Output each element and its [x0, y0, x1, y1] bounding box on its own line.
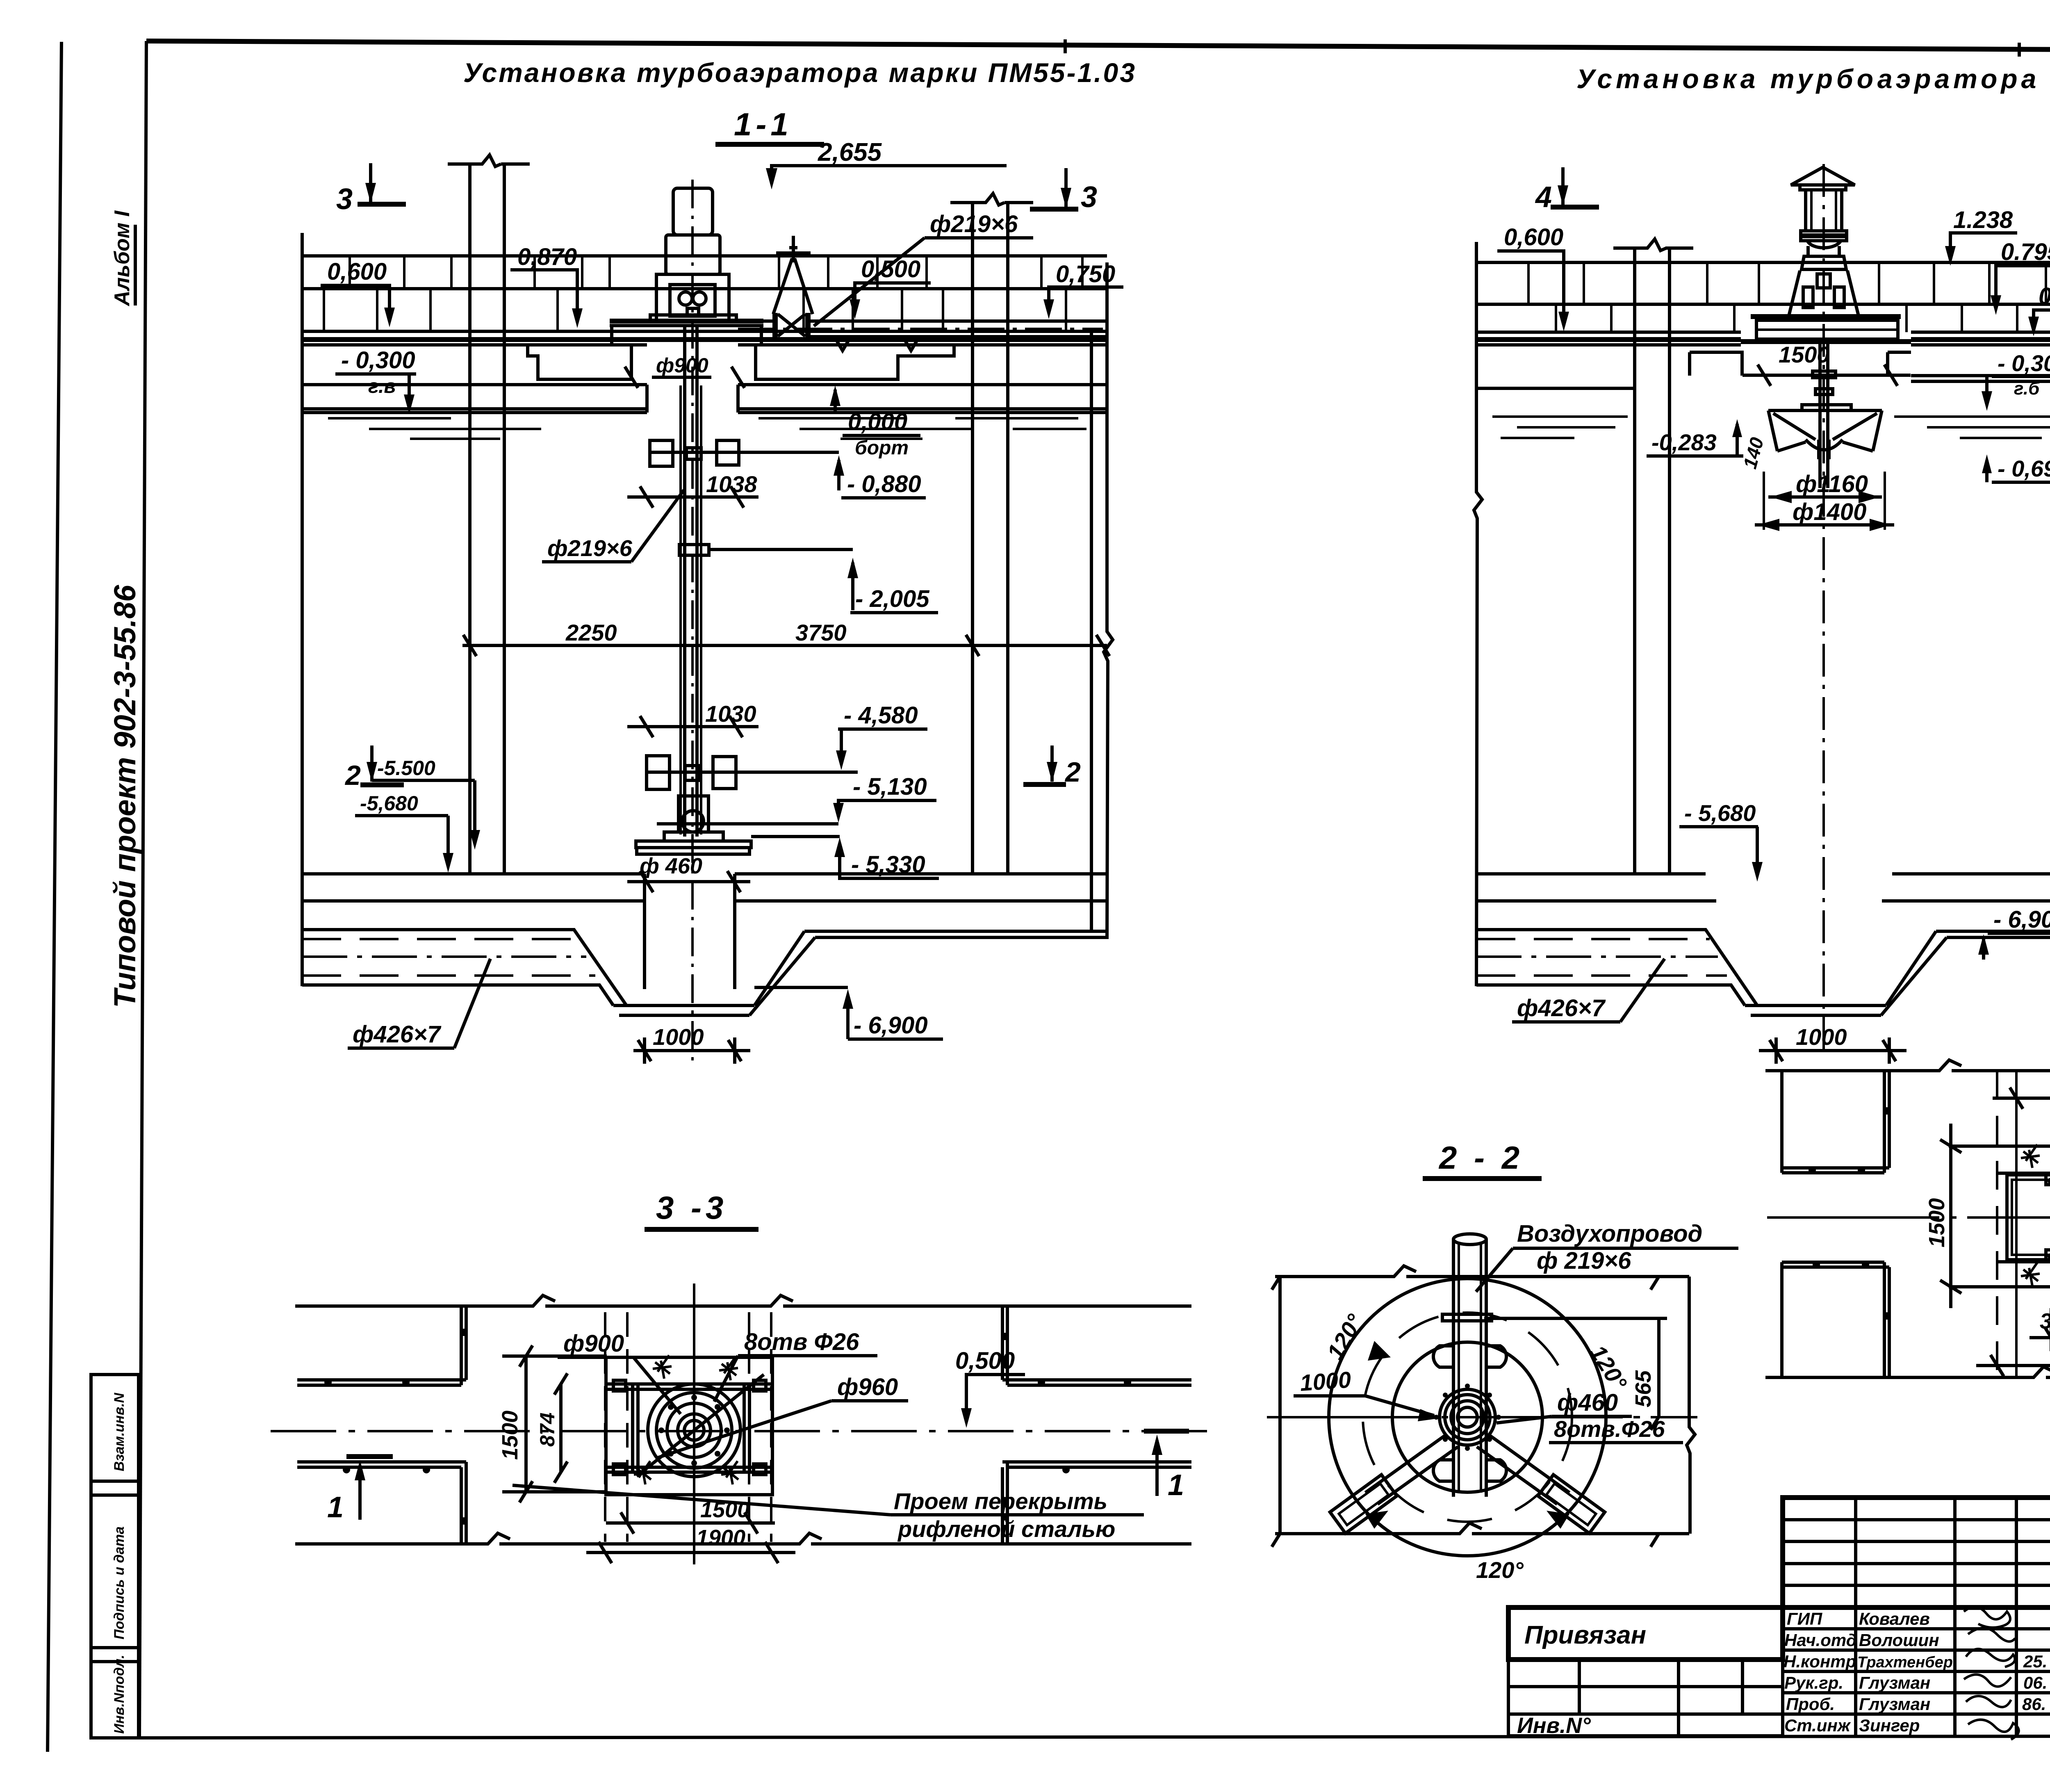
- motor body: [656, 274, 729, 321]
- svg-text:ф460: ф460: [1557, 1389, 1618, 1416]
- svg-text:1900: 1900: [696, 1525, 745, 1550]
- view label 1-1 underline: [715, 142, 824, 147]
- dim f1400 line: [1755, 523, 1894, 527]
- shaft guide upper left box: [650, 440, 673, 466]
- opening inner verticals right: [744, 1385, 749, 1472]
- svg-text:Волошин: Волошин: [1859, 1630, 1939, 1650]
- dim 1038 line: [627, 486, 758, 508]
- opening outer rect: [606, 1357, 772, 1495]
- right tank left wall: [1474, 242, 1482, 986]
- label 8otv leader: [714, 1356, 738, 1402]
- valve flange left: [772, 313, 778, 337]
- slab band top line: [302, 254, 1107, 258]
- slab underside right b: [738, 411, 1107, 414]
- svg-text:3: 3: [1081, 181, 1097, 214]
- elev 0.750 line: [1049, 287, 1123, 311]
- middle coupling: [679, 545, 709, 555]
- elev -5.130 line: [838, 800, 847, 814]
- elev -6.900 arrow: [843, 989, 853, 1009]
- svg-text:борт: борт: [855, 437, 909, 459]
- svg-text:1: 1: [1168, 1469, 1184, 1502]
- band mid line: [1476, 303, 2050, 306]
- motor platform line b: [610, 324, 763, 327]
- svg-text:- 0,880: - 0,880: [847, 471, 921, 497]
- BL block left stub: [1780, 1262, 1783, 1377]
- opening inner rect: [2012, 1180, 2050, 1255]
- right walkway rail top a: [1002, 1378, 1191, 1382]
- svg-text:3 -3: 3 -3: [656, 1190, 727, 1226]
- svg-text:ф426×7: ф426×7: [353, 1021, 442, 1048]
- svg-text:120°: 120°: [1585, 1341, 1632, 1395]
- floor bottom right: [735, 899, 1107, 903]
- right vertical double bottom: [1002, 1462, 1007, 1544]
- right pit bottom b: [1751, 1014, 1881, 1017]
- svg-text:Ст.инж: Ст.инж: [1784, 1716, 1851, 1735]
- right channel right bottom: [1947, 936, 2050, 939]
- elev 0.500 arrow: [850, 299, 860, 319]
- shaft collar: [1815, 389, 1833, 394]
- label f960 leader: [656, 1401, 831, 1458]
- svg-text:- 5,130: - 5,130: [853, 773, 927, 800]
- elev -5.130 arrow: [833, 803, 844, 823]
- turbine body: [679, 796, 708, 832]
- impeller tie: [751, 835, 840, 838]
- svg-text:Проб.: Проб.: [1786, 1694, 1835, 1714]
- paddle down-right: [1538, 1475, 1605, 1533]
- elev -0.693 underline: [1992, 481, 2050, 484]
- label f460 dim: [627, 871, 750, 892]
- right pit slope b: [1881, 937, 1947, 1015]
- elev 0.750 arrow: [1043, 299, 1054, 319]
- svg-text:1-1: 1-1: [734, 106, 793, 142]
- right pit bottom a: [1745, 1004, 1886, 1007]
- paddle down-left: [1330, 1475, 1397, 1533]
- svg-text:ф 460: ф 460: [640, 854, 702, 878]
- svg-text:1500: 1500: [1779, 342, 1830, 367]
- dim 874 vertical line: [554, 1373, 567, 1483]
- elev -2.005 arrow up: [851, 563, 854, 610]
- turbine disc: [637, 848, 749, 854]
- shaft guide upper center: [686, 448, 701, 459]
- section mark 2 right: [1023, 746, 1081, 788]
- outer circle: [1329, 1279, 1606, 1556]
- label leader to pipe: [1476, 1248, 1513, 1292]
- arm down-right a: [1477, 1434, 1569, 1504]
- svg-text:Проем перекрыть: Проем перекрыть: [894, 1488, 1107, 1514]
- hub circle small: [684, 1420, 704, 1440]
- motor cap: [1791, 167, 1855, 185]
- arc arrowheads: [1365, 1341, 1569, 1529]
- opening rail top b: [606, 1388, 772, 1391]
- svg-text:Глузман: Глузман: [1859, 1673, 1930, 1692]
- elev 0.000 underline: [843, 434, 920, 437]
- dim f1160 line: [1768, 495, 1882, 499]
- rim opening edge left: [645, 385, 649, 413]
- svg-text:Установка турбоаэратора марк: Установка турбоаэратора марки ПМ55-1.03: [463, 57, 1137, 88]
- opening edge top: [1997, 1172, 2050, 1175]
- right floor top left: [1476, 872, 1706, 875]
- stamp divider 1: [91, 1480, 139, 1483]
- label 1000 leader arrow: [1365, 1396, 1434, 1416]
- left table columns: [1579, 1660, 1742, 1736]
- lower guide right box: [713, 757, 736, 789]
- clamp pad upper left: [1433, 1346, 1453, 1367]
- elev -0.300 arrow: [404, 394, 415, 414]
- corner pad 2: [754, 1380, 766, 1391]
- label f960 underline: [831, 1399, 908, 1402]
- motor flange a: [1801, 231, 1847, 235]
- svg-text:ф219×6: ф219×6: [930, 211, 1018, 237]
- platform top thick: [1751, 314, 1901, 319]
- svg-text:1500: 1500: [700, 1498, 749, 1522]
- slab band mid line: [302, 287, 1107, 290]
- pipe support weld mark 2: [903, 337, 919, 351]
- dim 1900 bottom line: [586, 1542, 795, 1563]
- elev -5.680 right arrow: [1752, 862, 1763, 882]
- left table outline: [1508, 1660, 1783, 1736]
- clamp pad lower right: [1486, 1460, 1506, 1481]
- svg-text:120°: 120°: [1322, 1310, 1368, 1364]
- coupling tie line: [709, 548, 853, 551]
- turbine circle: [682, 811, 704, 832]
- svg-text:Альбом I: Альбом I: [110, 210, 134, 307]
- slab double a: [1476, 331, 1741, 334]
- right column right line: [1006, 203, 1009, 874]
- rim opening edge right: [736, 385, 740, 413]
- motor base flange: [650, 315, 736, 321]
- svg-text:рифленой сталью: рифленой сталью: [897, 1516, 1115, 1542]
- svg-text:2: 2: [1064, 757, 1081, 788]
- label 8otv plan22 underline: [1549, 1441, 1683, 1444]
- svg-text:Воздухопровод: Воздухопровод: [1517, 1220, 1702, 1247]
- label f426x7 underline: [348, 1046, 454, 1050]
- guide tie line: [650, 451, 839, 454]
- BL block vertical: [1884, 1262, 1889, 1377]
- hatch mark 1: [653, 1355, 672, 1379]
- svg-text:1000: 1000: [1299, 1366, 1352, 1396]
- signature squiggles: [1964, 1607, 2019, 1740]
- lower guide center: [685, 766, 700, 780]
- flange circle inner: [667, 1403, 721, 1457]
- motor cylinder: [1806, 190, 1842, 231]
- arm down-left a: [1365, 1434, 1458, 1504]
- fold mark tick top border: [1064, 39, 1067, 53]
- dim 565 top tie: [1484, 1317, 1667, 1320]
- svg-text:874: 874: [536, 1413, 559, 1447]
- svg-text:1000: 1000: [653, 1024, 704, 1050]
- channel left top: [302, 930, 626, 1005]
- right walkway rail bottom b: [1007, 1466, 1191, 1469]
- svg-text:ф900: ф900: [563, 1330, 624, 1357]
- dim 1500 bottom line: [606, 1512, 775, 1534]
- right channel top: [1476, 930, 1757, 1005]
- air pipe centerline: [738, 328, 1103, 330]
- svg-text:- 6,900: - 6,900: [854, 1012, 928, 1039]
- elev 1.238 line: [1950, 233, 2017, 258]
- dim frame top line: [1275, 1266, 1689, 1277]
- hub circle d: [1458, 1407, 1477, 1427]
- label f219x6 leader: [814, 238, 925, 326]
- left vertical double top: [461, 1306, 466, 1385]
- bell brace left: [1773, 413, 1815, 440]
- elev -5.680 arrow: [443, 853, 453, 873]
- svg-text:Привязан: Привязан: [1524, 1621, 1646, 1649]
- BL block horizontal b: [1782, 1265, 1889, 1269]
- left table rows: [1508, 1687, 1783, 1714]
- right center column right: [1668, 248, 1671, 874]
- ext line f1400 right: [1884, 472, 1886, 530]
- elev -6.900 right underline: [1988, 932, 2050, 935]
- border bottom: [139, 1736, 2050, 1738]
- dim 2.655 line: [772, 166, 1007, 184]
- slab line right of bell: [1911, 374, 2050, 377]
- lower guide left box: [647, 756, 670, 789]
- svg-text:1000: 1000: [1796, 1024, 1847, 1050]
- label f219x6 left underline: [542, 560, 631, 563]
- ext line f1400 left: [1763, 472, 1765, 530]
- tank right boundary: [1104, 262, 1113, 939]
- label f426x7 right leader: [1620, 959, 1665, 1022]
- corner pad 3: [2046, 1250, 2050, 1260]
- right walkway rail bottom a: [1002, 1460, 1191, 1464]
- elev -6.900 underline: [848, 1037, 943, 1041]
- pit bottom a: [613, 1004, 754, 1007]
- svg-text:0,500: 0,500: [955, 1347, 1015, 1374]
- step console right: [1888, 352, 1911, 376]
- svg-text:-0,283: -0,283: [1651, 429, 1717, 455]
- right channel bottom: [1476, 985, 1745, 1005]
- svg-text:ф900: ф900: [656, 354, 708, 377]
- air pipe right seg: [811, 319, 1107, 323]
- slab thick line right: [1911, 337, 2050, 342]
- centerline horizontal: [271, 1430, 1214, 1432]
- turbine plate: [636, 841, 751, 848]
- console right below slab: [756, 345, 954, 379]
- elev -0.880 arrow up: [837, 460, 840, 490]
- impeller top bar: [1802, 405, 1851, 410]
- dim 1900 plan44 line: [1976, 1355, 2050, 1376]
- channel dashes left: [302, 938, 578, 940]
- view label 3-3 underline: [645, 1227, 758, 1232]
- motor platform line a: [610, 319, 763, 324]
- shaft flange: [1813, 371, 1836, 378]
- svg-text:25.: 25.: [2023, 1652, 2047, 1671]
- svg-text:-5.500: -5.500: [377, 757, 435, 780]
- dim 1030 line: [627, 716, 758, 737]
- label f219x6 underline: [925, 236, 1033, 239]
- slab double b right: [1911, 331, 2050, 334]
- elev 0.600 line: [321, 285, 389, 318]
- svg-text:Подпись и дата: Подпись и дата: [112, 1526, 127, 1639]
- band top line: [295, 1295, 1191, 1306]
- svg-text:1.238: 1.238: [1953, 207, 2013, 233]
- svg-text:4: 4: [1535, 181, 1552, 214]
- pit wall right: [733, 874, 736, 989]
- label f900 underline: [558, 1356, 633, 1359]
- stacked table columns: [1856, 1498, 2016, 1736]
- platform box: [1756, 320, 1898, 339]
- dim 1500 vertical line: [502, 1345, 607, 1502]
- tank right wall inner face: [1090, 331, 1093, 931]
- opening edge bottom: [1997, 1260, 2050, 1263]
- clamp pad upper right: [1486, 1346, 1506, 1367]
- dim 1500 top line: [1993, 1088, 2050, 1109]
- svg-text:0,870: 0,870: [517, 244, 577, 270]
- pit right slope b: [749, 937, 815, 1015]
- right channel right top: [1936, 930, 2050, 933]
- right floor top right: [1892, 872, 2050, 875]
- svg-text:Инв.Nподл.: Инв.Nподл.: [112, 1655, 127, 1734]
- slab underside a: [302, 407, 647, 410]
- elev 0.600 line: [1497, 251, 1564, 323]
- elev -2.005 underline: [850, 611, 938, 614]
- elev -0.300 right arrow: [1982, 391, 1992, 411]
- elev 0.000 bort arrow: [834, 390, 837, 414]
- dim line 2250-3750: [462, 635, 1109, 656]
- platform end post left: [610, 326, 613, 345]
- opening rail top a: [606, 1382, 772, 1386]
- elev -5.500 line: [473, 780, 476, 841]
- left walkway rail top b: [297, 1384, 461, 1387]
- valve stem: [792, 236, 795, 262]
- dim frame bottom line: [1275, 1523, 1689, 1534]
- svg-text:- 2,005: - 2,005: [855, 586, 929, 612]
- section mark 4 left: [1535, 167, 1599, 214]
- svg-text:1500: 1500: [1925, 1198, 1949, 1247]
- section mark 2 left: [344, 746, 404, 791]
- platform end post right: [760, 326, 763, 345]
- floor top right: [735, 872, 1107, 875]
- border top: [146, 41, 2050, 52]
- column top break: [448, 155, 530, 166]
- left walkway rail bottom a: [297, 1460, 466, 1464]
- svg-text:Нач.отд: Нач.отд: [1784, 1630, 1857, 1650]
- slab lower line: [1476, 343, 1741, 347]
- opening rail bottom a: [606, 1466, 772, 1469]
- svg-text:Н.контр: Н.контр: [1783, 1652, 1856, 1671]
- svg-text:г.б: г.б: [2014, 378, 2040, 399]
- BL dots: [1813, 1261, 1891, 1320]
- elev 0.870 line: [510, 270, 577, 319]
- flange diagonal: [637, 1375, 764, 1476]
- elev 0.500 right arrow: [2028, 317, 2039, 336]
- label f900 leader: [633, 1357, 681, 1414]
- svg-text:Установка турбоаэратора марк: Установка турбоаэратора марки ЯТП1: [1576, 64, 2050, 94]
- hatch mark 2: [719, 1357, 738, 1380]
- elev -0.300 right underline: [1992, 375, 2050, 378]
- svg-text:Трахтенбер: Трахтенбер: [1857, 1654, 1953, 1671]
- slab lower line right: [738, 343, 1107, 347]
- svg-text:1030: 1030: [705, 701, 756, 727]
- bell left wall: [1768, 410, 1777, 451]
- elev -5.130 underline: [847, 799, 936, 802]
- bell brace right: [1833, 413, 1877, 440]
- dim 1500 left line: [1940, 1124, 1961, 1308]
- inner circle: [1392, 1342, 1542, 1492]
- slab lower line right: [1911, 343, 2050, 347]
- elev -6.900 right arrow: [1982, 939, 1985, 960]
- pad dots: [2048, 1178, 2050, 1260]
- bell right wall: [1873, 410, 1882, 451]
- stacked table rows: [1783, 1520, 2050, 1585]
- label f426x7 leader: [454, 959, 490, 1048]
- elev -5.330 line: [840, 846, 845, 878]
- svg-text:ф 219×6: ф 219×6: [1537, 1247, 1631, 1274]
- TL block left stub: [1780, 1071, 1783, 1173]
- flange circle ring: [656, 1393, 732, 1468]
- slab top double line a: [302, 330, 1107, 333]
- elev -5.680 line: [446, 816, 450, 864]
- svg-text:г.в: г.в: [368, 376, 396, 397]
- right boundary vertical: [1687, 1277, 1695, 1534]
- right channel centerline: [1476, 955, 1718, 958]
- centerline horizontal plan22: [1267, 1416, 1697, 1418]
- valve tripod right leg: [795, 258, 813, 314]
- air pipe left seg top: [737, 319, 772, 323]
- motor inner panel: [670, 285, 715, 316]
- elev -4.580 underline: [838, 727, 927, 731]
- svg-text:1038: 1038: [706, 471, 757, 497]
- stamp column box: [91, 1375, 139, 1738]
- slab underside b: [302, 411, 647, 414]
- svg-text:- 0,300: - 0,300: [341, 347, 415, 374]
- right walkway rail top b: [1007, 1384, 1191, 1387]
- hub bolt dots: [1434, 1384, 1501, 1451]
- name rows lines: [1783, 1629, 2050, 1714]
- svg-text:- 4,580: - 4,580: [844, 702, 918, 729]
- TL block horizontal a: [1782, 1166, 1889, 1170]
- elev -5.330 arrow: [834, 837, 845, 857]
- motor neck: [1807, 241, 1841, 256]
- channel centerline left: [302, 955, 586, 958]
- water dashes right: [758, 418, 1086, 439]
- shaft left line: [1818, 344, 1822, 488]
- slab thick line: [1476, 337, 1741, 342]
- svg-text:ф960: ф960: [837, 1374, 898, 1400]
- svg-text:2: 2: [344, 760, 361, 791]
- svg-text:ф426×7: ф426×7: [1517, 995, 1606, 1021]
- shaft right line: [1826, 344, 1829, 488]
- shaft guide upper right box: [717, 440, 739, 465]
- svg-text:1: 1: [327, 1491, 344, 1524]
- paddle down-right inner: [1546, 1484, 1596, 1525]
- shaft tube right: [695, 326, 699, 837]
- centerline horizontal plan44: [1767, 1216, 2050, 1219]
- center grid vertical left pair: [605, 1312, 627, 1542]
- elev 0.600 arrow: [1558, 312, 1569, 331]
- corner pad 4: [754, 1464, 766, 1475]
- valve flange right: [805, 313, 811, 337]
- dashed circle: [1363, 1313, 1572, 1522]
- water dashes left: [328, 418, 541, 439]
- elev -5.330 underline: [845, 877, 939, 880]
- elev 0.500 plan33 arrow: [961, 1408, 972, 1428]
- rim line right: [738, 383, 1107, 386]
- hatch mark 3: [2021, 1263, 2040, 1286]
- svg-text:86.: 86.: [2022, 1694, 2046, 1714]
- left walkway rail bottom b: [297, 1466, 461, 1469]
- center column left line: [468, 164, 471, 874]
- bell inner shaft: [1819, 440, 1829, 459]
- motor flange b: [1801, 237, 1847, 241]
- TL block horizontal b: [1782, 1171, 1884, 1174]
- dim 1500 right line: [1742, 365, 1911, 386]
- turbine flange: [664, 832, 723, 841]
- elev 1.238 arrow: [1945, 246, 1956, 266]
- dashed grid vertical left: [1996, 1071, 1998, 1377]
- opening rail bottom b: [606, 1471, 772, 1474]
- right column left line: [971, 203, 974, 874]
